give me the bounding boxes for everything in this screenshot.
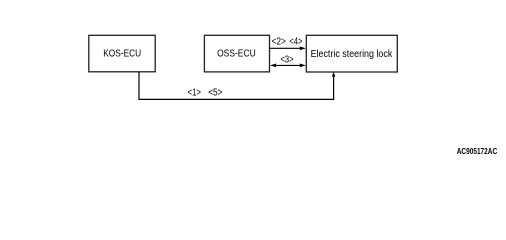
svg-text:<1>: <1> [188, 88, 202, 99]
box Electric steering lock [306, 35, 397, 72]
svg-text:<3>: <3> [281, 55, 294, 66]
svg-text:<5>: <5> [208, 88, 222, 99]
svg-text:AC905172AC: AC905172AC [457, 146, 498, 156]
svg-text:OSS-ECU: OSS-ECU [217, 48, 256, 59]
label <4> [289, 37, 302, 48]
box OSS-ECU [204, 35, 269, 72]
label <5> [208, 88, 222, 99]
svg-text:<2>: <2> [272, 37, 286, 48]
box KOS-ECU [89, 35, 155, 72]
svg-text:<4>: <4> [289, 37, 302, 48]
label <2> [272, 37, 286, 48]
svg-text:Electric steering lock: Electric steering lock [311, 49, 393, 60]
svg-text:KOS-ECU: KOS-ECU [103, 48, 141, 59]
label <3> [281, 55, 294, 66]
wire double arrow OSS-ECU / Electric steering lock (bottom) [270, 64, 306, 68]
wire arrow OSS-ECU to Electric steering lock (top) [270, 46, 306, 50]
label AC905172AC [457, 146, 498, 156]
wire KOS-ECU down, right, up into Electric steering lock [139, 72, 335, 100]
label <1> [188, 88, 202, 99]
